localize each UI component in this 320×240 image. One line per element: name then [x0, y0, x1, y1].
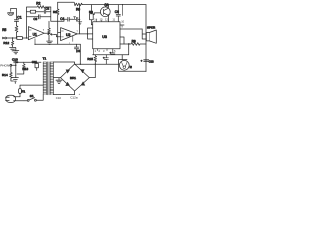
wire U3 left input	[88, 28, 93, 39]
pin numbers bottom	[95, 49, 117, 53]
svg-text:3: 3	[103, 49, 105, 53]
wire U2 out	[77, 33, 87, 35]
pin numbers top	[94, 18, 115, 22]
svg-text:C1: C1	[17, 16, 21, 20]
op-amp U2	[61, 28, 78, 41]
capacitor C8	[115, 5, 121, 22]
svg-text:U3: U3	[102, 35, 107, 39]
svg-text:T1: T1	[43, 56, 47, 60]
svg-text:C4: C4	[60, 17, 64, 21]
svg-text:R5: R5	[2, 28, 6, 32]
wire U1 out	[44, 32, 49, 34]
resistor R3 vertical	[53, 9, 59, 15]
svg-text:U1: U1	[33, 32, 37, 36]
svg-text:C13: C13	[149, 59, 154, 63]
svg-text:7: 7	[76, 30, 78, 33]
svg-text:5: 5	[114, 49, 116, 53]
right rail	[145, 5, 147, 72]
wire phono down	[15, 65, 17, 77]
capacitor C4	[60, 17, 73, 21]
svg-text:R6: R6	[76, 7, 80, 11]
wire feedback vertical U1	[26, 7, 28, 38]
resistor R9	[120, 39, 146, 45]
label C12a	[56, 93, 81, 100]
wire preamp supply drop	[79, 44, 81, 64]
wire U3 bottom pins	[98, 49, 108, 51]
wire pot wiper to U2	[54, 34, 61, 36]
wire center tap	[53, 78, 60, 80]
label PHONO	[0, 64, 12, 68]
svg-text:+: +	[110, 50, 112, 54]
wire U1 power stub	[34, 39, 36, 45]
ground (pot)	[47, 39, 53, 45]
rail A below U3	[93, 54, 129, 56]
fuse F1	[19, 85, 44, 97]
svg-text:SPKR: SPKR	[147, 26, 156, 30]
resistor R14	[2, 66, 14, 81]
capacitor C5	[74, 44, 80, 53]
capacitor C2	[44, 6, 51, 13]
svg-text:13: 13	[100, 18, 103, 22]
ground (center tap)	[56, 80, 62, 83]
wire U2 feedback vertical	[58, 2, 80, 34]
switch S1	[24, 94, 43, 101]
wire U3 right pins	[120, 25, 124, 44]
svg-text:R13: R13	[22, 67, 28, 71]
capacitor C1	[14, 16, 21, 22]
resistor R6	[72, 2, 82, 11]
wire U3 right pin to speaker	[120, 28, 142, 30]
svg-text:2: 2	[99, 49, 101, 53]
svg-text:R12: R12	[3, 41, 9, 45]
svg-text:BR1: BR1	[70, 76, 76, 80]
wire C3 row to C4	[51, 19, 64, 21]
transistor Q1	[100, 3, 110, 22]
resistor R1b box	[27, 10, 44, 13]
AC plug PL1	[6, 95, 24, 102]
wire C1 to R5	[16, 21, 18, 25]
speaker SPKR	[142, 26, 156, 44]
op-amp U1	[28, 27, 44, 40]
svg-text:C12a: C12a	[70, 96, 78, 100]
svg-text:R15: R15	[87, 57, 93, 61]
svg-text:+: +	[79, 93, 81, 96]
svg-text:11: 11	[112, 18, 115, 22]
svg-text:14: 14	[94, 18, 97, 22]
svg-text:C10: C10	[56, 96, 62, 100]
svg-text:C5: C5	[77, 49, 81, 53]
capacitor C13	[141, 59, 155, 64]
wire U2 pin stubs	[72, 36, 74, 42]
pin numbers right	[121, 20, 124, 29]
bridge rectifier BR1	[61, 64, 90, 91]
wire lamp junction	[128, 44, 130, 55]
resistor R15	[87, 55, 96, 64]
ground (input)	[10, 48, 16, 51]
wire lamp to rail	[119, 70, 147, 72]
svg-text:12: 12	[105, 18, 108, 22]
capacitor C9a	[110, 49, 115, 55]
resistor R1	[9, 37, 29, 40]
capacitor C9b	[103, 55, 108, 64]
wire R5 to input line	[16, 32, 18, 38]
capacitor C7 to ground	[73, 17, 82, 25]
microphone MIC1	[8, 9, 14, 16]
svg-text:F1: F1	[22, 89, 26, 93]
node MIC input	[3, 37, 9, 39]
capacitor C10	[12, 57, 18, 65]
svg-text:C3: C3	[33, 17, 37, 21]
svg-text:I2: I2	[130, 65, 133, 69]
pilot lamp I1	[119, 55, 133, 71]
ground (phono upper)	[13, 48, 19, 54]
svg-text:1: 1	[95, 49, 97, 53]
svg-text:1: 1	[69, 42, 71, 45]
resistor R5	[2, 26, 18, 32]
resistor R12	[3, 37, 13, 47]
resistor R2	[27, 1, 51, 8]
ground (phono lower)	[12, 78, 18, 84]
transformer T1	[43, 56, 54, 94]
capacitor C3	[27, 7, 51, 21]
svg-text:U2: U2	[66, 33, 70, 37]
wire mic to C1	[11, 9, 17, 20]
top rail +V	[82, 4, 146, 6]
svg-text:7: 7	[43, 29, 45, 32]
rail bottom-left	[16, 61, 41, 62]
wire secondary bottom to bridge	[53, 91, 74, 95]
IC U3	[93, 22, 120, 49]
capacitor C11	[32, 60, 39, 71]
potentiometer R4	[48, 21, 55, 38]
svg-text:R3: R3	[53, 10, 57, 14]
wire bridge + output	[89, 64, 95, 77]
wire U2 lower rail	[35, 43, 80, 45]
wire secondary top to bridge	[53, 62, 74, 64]
resistor R13	[17, 62, 28, 74]
node phono jack	[10, 64, 17, 66]
wire Q1 collector junction	[108, 4, 109, 5]
svg-text:C10: C10	[12, 57, 18, 61]
svg-text:10: 10	[121, 20, 124, 24]
rail B bridge top to lamp	[75, 63, 119, 65]
svg-text:S1: S1	[30, 94, 34, 98]
svg-text:R14: R14	[2, 73, 8, 77]
svg-text:R2: R2	[36, 1, 40, 5]
resistor R8 box	[89, 5, 103, 25]
svg-text:+: +	[141, 59, 143, 63]
